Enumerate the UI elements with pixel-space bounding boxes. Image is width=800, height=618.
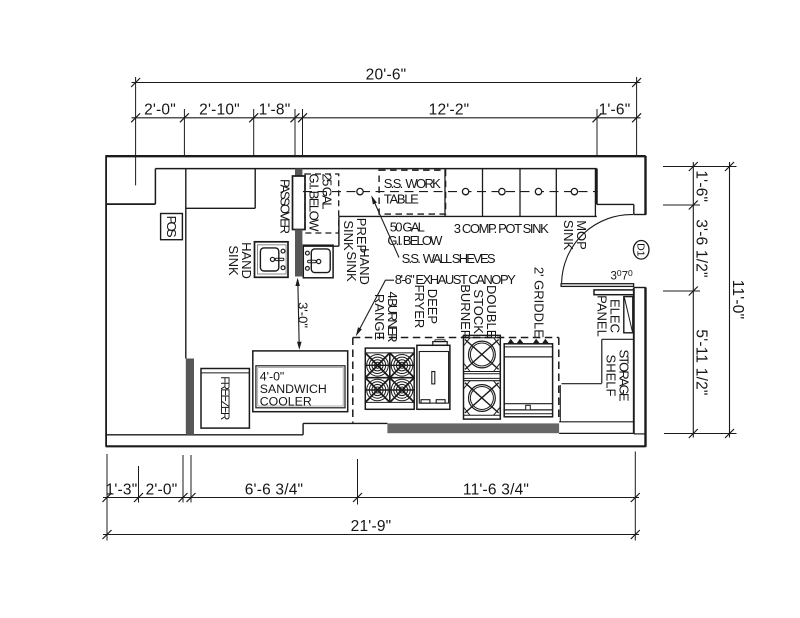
4 burner range bbox=[365, 348, 414, 409]
svg-text:2' GRIDDLE: 2' GRIDDLE bbox=[532, 267, 547, 338]
passover wall bar upper bbox=[295, 169, 302, 177]
faucet circles bbox=[357, 188, 578, 194]
sandwich cooler bbox=[253, 351, 348, 412]
freezer bbox=[201, 369, 249, 429]
POS box bbox=[161, 214, 183, 240]
storage shelf lines bbox=[562, 339, 634, 383]
POS counter edges bbox=[186, 169, 255, 209]
right dimension texts (rotated) bbox=[693, 170, 747, 395]
3'-0" leader line bbox=[295, 278, 301, 350]
svg-text:6'-6 3/4": 6'-6 3/4" bbox=[245, 481, 304, 498]
S.S. work table dashed box bbox=[379, 170, 446, 214]
equipment zone edge line bbox=[559, 385, 561, 422]
svg-text:11'-0": 11'-0" bbox=[729, 280, 746, 320]
elec panel box bbox=[624, 297, 633, 333]
wall chunk top-right (door jamb) bbox=[597, 169, 646, 215]
door D1 swing arc bbox=[562, 215, 634, 283]
svg-text:11'-6 3/4": 11'-6 3/4" bbox=[463, 481, 529, 498]
wall shelves leader arrow bbox=[371, 195, 399, 257]
double stock burner bbox=[464, 335, 501, 419]
svg-text:21'-9": 21'-9" bbox=[351, 518, 392, 535]
bottom dimension texts row 1 bbox=[106, 481, 530, 498]
hand sink left box bbox=[255, 242, 289, 277]
bottom dimension line row 1 bbox=[103, 452, 640, 541]
exhaust canopy dashed boundary bbox=[353, 338, 559, 423]
25 GAL dashed box bbox=[305, 174, 339, 233]
svg-text:3'-0": 3'-0" bbox=[295, 302, 310, 328]
svg-text:S.S. WORK: S.S. WORK bbox=[384, 176, 441, 191]
door tag D1 ellipse bbox=[633, 241, 649, 260]
inner wall top face bbox=[155, 168, 596, 170]
bottom dimension line 21'-9" bbox=[103, 530, 640, 539]
svg-text:G.I. BELOW: G.I. BELOW bbox=[387, 233, 443, 248]
right wall lower inner face bbox=[634, 288, 646, 434]
svg-text:20'-6": 20'-6" bbox=[366, 67, 407, 84]
svg-text:DEEPFRYER: DEEPFRYER bbox=[412, 284, 440, 328]
top dimension texts row 2 bbox=[144, 102, 630, 119]
svg-text:D1: D1 bbox=[635, 243, 647, 257]
svg-text:1'-6": 1'-6" bbox=[693, 170, 710, 202]
svg-text:2'-10": 2'-10" bbox=[199, 102, 240, 119]
svg-text:4 BURNERRANGE: 4 BURNERRANGE bbox=[372, 292, 400, 343]
svg-text:12'-2": 12'-2" bbox=[429, 102, 470, 119]
outer walls bbox=[106, 155, 646, 447]
svg-text:1'-8": 1'-8" bbox=[259, 102, 291, 119]
wall jog top-left bbox=[106, 169, 155, 205]
svg-text:COOLER: COOLER bbox=[260, 394, 312, 408]
svg-text:5'-11 1/2": 5'-11 1/2" bbox=[693, 329, 710, 395]
svg-text:1'-6": 1'-6" bbox=[599, 102, 631, 119]
passover window box bbox=[293, 176, 306, 230]
svg-text:STORAGESHELF: STORAGESHELF bbox=[604, 350, 632, 402]
top dimension line 20'-6" bbox=[131, 77, 641, 185]
counter bottom edge bbox=[339, 215, 597, 217]
pot sink dividers bbox=[445, 169, 595, 217]
partition line left bbox=[185, 169, 187, 359]
svg-text:3 COMP. POT SINK: 3 COMP. POT SINK bbox=[454, 221, 549, 236]
passover wall bar lower bbox=[295, 230, 302, 277]
sandwich cooler text bbox=[260, 370, 327, 409]
deep fryer bbox=[417, 340, 450, 410]
sink centerline dashed bbox=[303, 191, 597, 193]
svg-text:PASSOVER: PASSOVER bbox=[278, 179, 293, 234]
50 GAL G.I. BELOW text bbox=[387, 220, 443, 248]
hand sink right box bbox=[303, 245, 333, 278]
griddle bbox=[504, 339, 552, 417]
svg-text:TABLE: TABLE bbox=[384, 191, 419, 206]
svg-text:2'-0": 2'-0" bbox=[144, 102, 176, 119]
top dimension line row 2 bbox=[131, 109, 641, 156]
svg-text:3070: 3070 bbox=[611, 268, 634, 283]
canopy leader arrow bbox=[356, 280, 394, 336]
svg-text:ELECPANEL: ELECPANEL bbox=[595, 295, 623, 337]
svg-text:POS: POS bbox=[164, 216, 179, 238]
S.S. WORK TABLE text bbox=[384, 176, 441, 206]
right dimension lines bbox=[663, 162, 737, 438]
svg-text:HANDSINK: HANDSINK bbox=[344, 248, 372, 285]
dark gray band under equipment bbox=[387, 423, 559, 433]
wall stub gray bbox=[186, 359, 194, 435]
svg-text:25 GALG.I. BELOW: 25 GALG.I. BELOW bbox=[307, 174, 335, 233]
door D1 leaf bbox=[561, 284, 634, 287]
svg-text:S.S. WALL SHEVES: S.S. WALL SHEVES bbox=[402, 251, 496, 266]
svg-text:3'-6 1/2": 3'-6 1/2" bbox=[693, 219, 710, 278]
svg-text:DOUBLESTOCKBURNER: DOUBLESTOCKBURNER bbox=[458, 284, 499, 339]
svg-text:FREEZER: FREEZER bbox=[218, 376, 230, 420]
bottom wall inner faces bbox=[106, 422, 634, 435]
prep counter deep section bbox=[303, 216, 339, 246]
svg-text:HANDSINK: HANDSINK bbox=[226, 242, 254, 279]
svg-text:2'-0": 2'-0" bbox=[146, 481, 178, 498]
svg-text:1'-3": 1'-3" bbox=[106, 481, 138, 498]
corridor partition wall bar bbox=[594, 290, 634, 295]
svg-text:MOPSINK: MOPSINK bbox=[561, 220, 589, 251]
